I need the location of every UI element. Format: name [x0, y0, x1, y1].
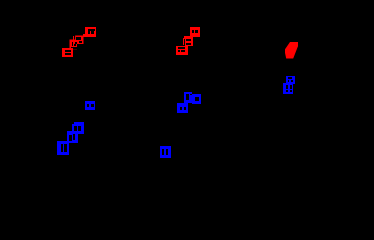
- sulfo S1: hydroxyl HO: [62, 48, 73, 57]
- hydrazone nitrogen N1 (NH): [184, 92, 192, 103]
- ring nitrogen N3: [85, 101, 95, 110]
- sulfo S2: S=O double-bond oxygen O5: [183, 37, 193, 46]
- chain nitrogen N4: [72, 122, 84, 134]
- chemical structure diagram: azo-dye skeletal formula, transparent background shown as black: [0, 0, 374, 188]
- sulfo S1: S=O double-bond oxygens O2/O3: [70, 36, 84, 50]
- sulfo S2: oxygen O4 (top): [184, 27, 200, 39]
- hydrazone nitrogen N2: [177, 103, 188, 113]
- hydrazone hydrogen label: [192, 94, 201, 104]
- carbonyl oxygen O7 with red double-bond: [285, 42, 298, 59]
- amine N8 label (N): [286, 76, 295, 84]
- chain nitrogen N6: [57, 141, 69, 155]
- ring nitrogen N7: [160, 146, 171, 158]
- sulfo S2: hydroxyl HO: [176, 46, 188, 55]
- sulfo S1: oxygen O1 (top) with H: [83, 27, 96, 37]
- chain nitrogen N5: [67, 131, 78, 143]
- amine N8 label (H2): [283, 83, 293, 94]
